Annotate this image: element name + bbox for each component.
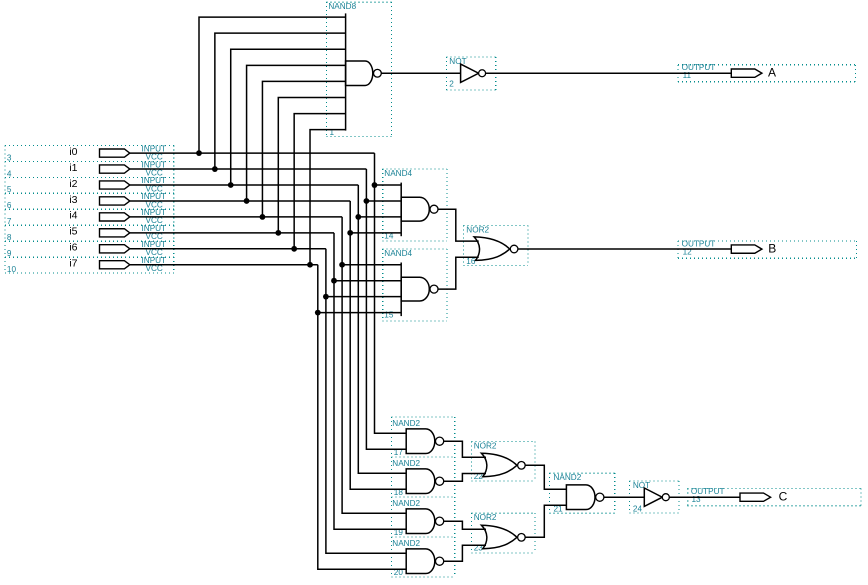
nand gate NAND4 box, instance 15 <box>383 249 447 321</box>
wire i0 up to NAND8 input 1 <box>199 17 346 153</box>
wire NOR2-22 out to NAND2-21 in1 <box>525 465 566 489</box>
output pin A box, instance 11 <box>678 63 856 82</box>
svg-text:NAND2: NAND2 <box>392 419 420 428</box>
wire i1 up to NAND8 input 2 <box>215 33 346 169</box>
svg-text:NAND2: NAND2 <box>392 539 420 548</box>
input pin i1 connector <box>100 165 130 173</box>
svg-text:i7: i7 <box>69 258 77 270</box>
wire i2 row <box>130 184 358 186</box>
nor NOR2 U22 body <box>481 453 517 477</box>
svg-text:NOT: NOT <box>633 481 650 490</box>
nor gate NOR2 box, instance 22 <box>472 441 535 481</box>
nand gate NAND2 box, instance 21 <box>550 473 615 513</box>
wire i6 down column to NAND2 <box>326 249 406 553</box>
input pin i6 connector <box>100 245 130 253</box>
wire i1 branch to NAND4-14 input <box>366 200 401 202</box>
wire i0 row <box>130 152 375 154</box>
wire i7 up to NAND8 input 8 <box>310 130 346 265</box>
node i6 junction to NAND8 column <box>291 246 297 252</box>
wire i3 up to NAND8 input 4 <box>247 65 346 201</box>
output pin C connector <box>740 493 771 501</box>
wire i3 branch to NAND4-14 input <box>350 232 401 234</box>
node i2 junction to NAND4-14 <box>355 214 361 220</box>
nand gate NAND4 box, instance 14 <box>383 169 447 241</box>
svg-text:NAND8: NAND8 <box>328 2 356 11</box>
wire i7 row <box>130 264 318 266</box>
op-amp NAND8 U1 body <box>346 61 373 85</box>
wire i4 row <box>130 216 342 218</box>
svg-text:i6: i6 <box>69 242 77 254</box>
input pin i0 symbol box (instance 3) <box>5 144 174 162</box>
input pin i3 symbol box (instance 6) <box>5 192 174 210</box>
wire NOT-24 out to pin C <box>669 496 740 498</box>
wire i2 down column to NAND2 <box>358 185 406 473</box>
svg-text:11: 11 <box>683 71 692 80</box>
wire i6 row <box>130 248 326 250</box>
node i5 junction to NAND4-15 <box>331 278 337 284</box>
wire i1 down column to NAND2 <box>366 169 406 449</box>
wire i0 branch to NAND4-14 input <box>375 184 402 186</box>
nand NAND2 U20 body <box>406 549 435 574</box>
input pin i4 connector <box>100 213 130 221</box>
wire i0 down column to NAND2 <box>375 153 407 433</box>
wire i6 up to NAND8 input 7 <box>294 114 345 249</box>
svg-text:NAND4: NAND4 <box>384 169 412 178</box>
input pin i4 symbol box (instance 7) <box>5 208 174 226</box>
svg-text:i0: i0 <box>69 146 77 158</box>
nand gate NAND2 box, instance 20 <box>392 537 455 577</box>
node i7 junction to NAND4-15 <box>315 310 321 316</box>
node i0 junction to NAND4-14 <box>372 182 378 188</box>
svg-text:NAND2: NAND2 <box>554 473 582 482</box>
svg-text:NOT: NOT <box>449 57 466 66</box>
wire i3 down column to NAND2 <box>350 201 406 489</box>
input pin i3 connector <box>100 197 130 205</box>
inverter NOT U2 body <box>461 64 479 82</box>
wire i7 down column to NAND2 <box>318 265 406 569</box>
node i6 junction to NAND4-15 <box>323 294 329 300</box>
wire i6 branch to NAND4-15 input <box>326 296 401 298</box>
input pin i5 connector <box>100 229 130 237</box>
wire NAND4-15 out to NOR2-16 in2 <box>438 257 479 289</box>
svg-text:2: 2 <box>449 80 454 89</box>
wire i7 branch to NAND4-15 input <box>318 312 401 314</box>
svg-text:NOR2: NOR2 <box>466 225 489 234</box>
input pin i1 symbol box (instance 4) <box>5 160 174 178</box>
input pin i5 symbol box (instance 8) <box>5 224 174 242</box>
node i4 junction to NAND8 column <box>260 214 266 220</box>
svg-text:16: 16 <box>466 257 476 266</box>
wire i5 up to NAND8 input 6 <box>278 98 345 233</box>
nand NAND2 U18 body <box>406 469 435 494</box>
wire NAND2-17 out to NOR2-22 in1 <box>444 441 486 457</box>
nor gate NOR2 box, instance 16 <box>464 225 529 266</box>
node i3 junction to NAND4-14 <box>347 230 353 236</box>
wire i4 down column to NAND2 <box>342 217 406 513</box>
svg-text:10: 10 <box>7 265 17 274</box>
nand NAND2 U21 body <box>566 485 595 510</box>
wire NAND2-21 out to NOT-24 <box>604 496 644 498</box>
nor NOR2 U23 body <box>481 525 517 549</box>
svg-text:NOR2: NOR2 <box>474 513 497 522</box>
inverter NOT box, instance 2 <box>446 57 495 90</box>
wire i5 row <box>130 232 334 234</box>
svg-text:NAND4: NAND4 <box>384 249 412 258</box>
wire NOR2-16 out to pin B <box>518 248 731 250</box>
svg-text:24: 24 <box>633 504 643 513</box>
nor NOR2 U16 body <box>474 237 510 261</box>
wire i2 branch to NAND4-14 input <box>358 216 401 218</box>
svg-text:i3: i3 <box>69 194 77 206</box>
svg-text:i1: i1 <box>69 162 77 174</box>
nand gate NAND2 box, instance 17 <box>392 417 455 457</box>
nor gate NOR2 box, instance 23 <box>472 513 535 553</box>
input pin i0 connector <box>100 149 130 157</box>
svg-text:13: 13 <box>692 495 702 504</box>
nand NAND4 U14 body <box>401 197 429 221</box>
svg-text:NAND2: NAND2 <box>392 499 420 508</box>
nand NAND2 U19 body <box>406 509 435 534</box>
svg-text:B: B <box>768 242 776 256</box>
output pin A connector <box>731 69 762 77</box>
node i1 junction to NAND8 column <box>212 166 218 172</box>
svg-text:i5: i5 <box>69 226 77 238</box>
wire NAND2-18 out to NOR2-22 in2 <box>444 474 486 482</box>
inverter NOT U24 body <box>644 488 662 506</box>
wire i1 row <box>130 168 367 170</box>
wire NAND8 output to NOT <box>381 72 460 74</box>
wire i3 row <box>130 200 350 202</box>
output pin B connector <box>731 245 762 253</box>
nand gate NAND2 box, instance 19 <box>392 497 455 537</box>
node i7 junction to NAND8 column <box>307 262 313 268</box>
svg-text:i2: i2 <box>69 178 77 190</box>
wire NAND2-20 out to NOR2-23 in2 <box>444 545 486 561</box>
input pin i7 symbol box (instance 10) <box>5 256 174 274</box>
wire i5 down column to NAND2 <box>334 233 406 529</box>
input pin i2 symbol box (instance 5) <box>5 176 174 194</box>
nand gate NAND8 box, instance 1 <box>327 2 392 137</box>
node i5 junction to NAND8 column <box>275 230 281 236</box>
svg-text:C: C <box>779 490 788 504</box>
nand gate NAND2 box, instance 18 <box>392 457 455 497</box>
wire NOT output to pin A <box>486 72 732 74</box>
wire NOR2-23 out to NAND2-21 in2 <box>525 505 566 537</box>
output pin B box, instance 12 <box>678 240 857 259</box>
wire i5 branch to NAND4-15 input <box>334 280 401 282</box>
input pin i6 symbol box (instance 9) <box>5 240 174 258</box>
input pin i2 connector <box>100 181 130 189</box>
wire i4 branch to NAND4-15 input <box>342 264 401 266</box>
node i1 junction to NAND4-14 <box>364 198 370 204</box>
node i3 junction to NAND8 column <box>244 198 250 204</box>
node i0 junction to NAND8 column <box>196 150 202 156</box>
svg-text:A: A <box>768 65 776 79</box>
node i4 junction to NAND4-15 <box>339 262 345 268</box>
svg-text:NAND2: NAND2 <box>392 459 420 468</box>
wire NAND2-19 out to NOR2-23 in1 <box>444 521 486 529</box>
wire i4 up to NAND8 input 5 <box>262 81 345 216</box>
wire i2 up to NAND8 input 3 <box>231 49 346 185</box>
inverter NOT box, instance 24 <box>629 481 679 514</box>
node i2 junction to NAND8 column <box>228 182 234 188</box>
nand NAND2 U17 body <box>406 429 435 454</box>
svg-text:NOR2: NOR2 <box>474 441 497 450</box>
wire NAND4-14 out to NOR2-16 in1 <box>438 209 479 241</box>
svg-text:i4: i4 <box>69 210 77 222</box>
nand NAND4 U15 body <box>401 277 429 301</box>
output pin C box, instance 13 <box>688 487 861 506</box>
input pin i7 connector <box>100 261 130 269</box>
